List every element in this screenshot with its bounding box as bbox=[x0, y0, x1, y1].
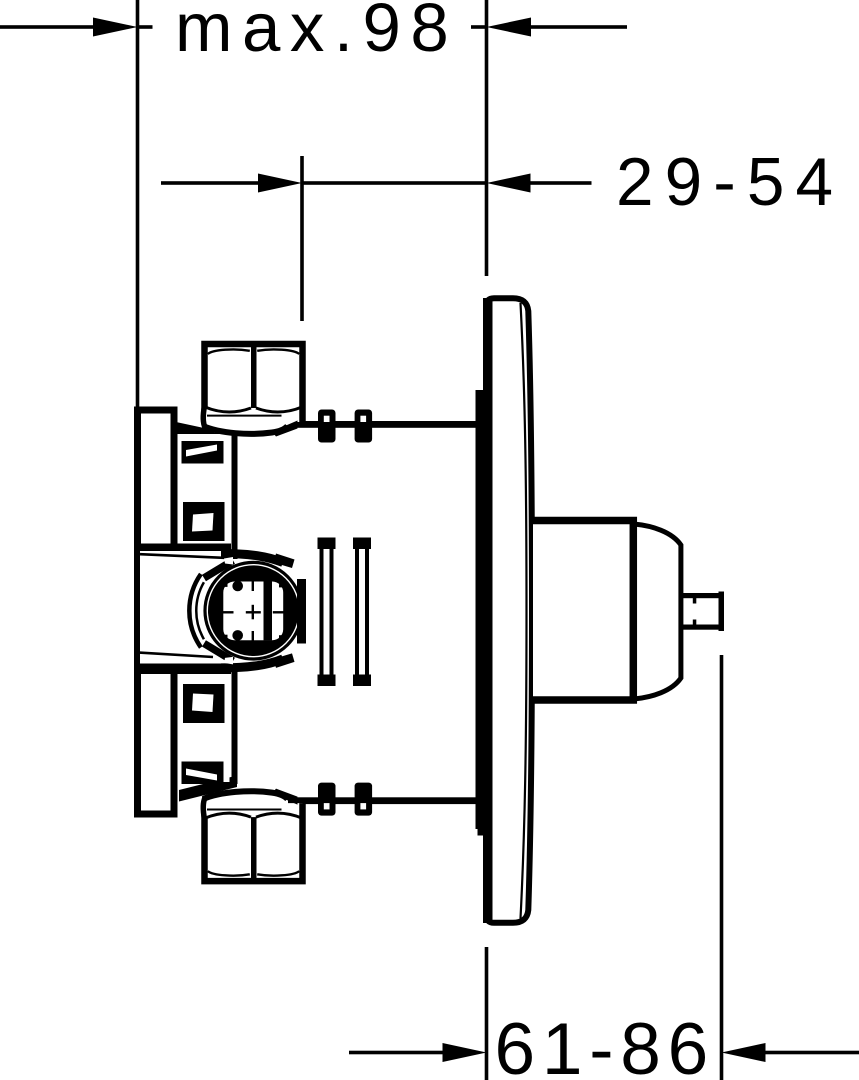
arrow 61-86 left bbox=[443, 1043, 487, 1062]
arrow 61-86 right bbox=[722, 1043, 766, 1062]
port boss outer arc bbox=[189, 574, 201, 647]
dimension line 29-54 left tail bbox=[161, 181, 258, 185]
pipe clip top 1 bbox=[318, 410, 336, 443]
dimension line max.98 left tail bbox=[0, 25, 94, 29]
boss bottom edge bbox=[136, 664, 231, 675]
svg-text:29-54: 29-54 bbox=[616, 145, 844, 220]
dimension line 29-54 span bbox=[302, 181, 487, 185]
arrow 29-54 right bbox=[487, 174, 531, 193]
port ear bottom-right bbox=[274, 653, 295, 668]
escutcheon face curve bbox=[521, 303, 527, 919]
square hole 2 bbox=[183, 502, 225, 541]
boss bottom inner line bbox=[139, 653, 213, 657]
port inner chord bar bbox=[264, 581, 273, 640]
boss top inner line bbox=[140, 554, 232, 558]
centre boss section bbox=[140, 551, 230, 664]
svg-text:max.98: max.98 bbox=[175, 0, 458, 66]
spindle stem bbox=[681, 592, 724, 632]
boss top edge bbox=[136, 544, 231, 552]
cartridge housing bbox=[533, 521, 633, 701]
escutcheon rear sleeve bbox=[476, 390, 484, 829]
port band junction top-left bbox=[204, 561, 233, 579]
escutcheon plate bbox=[486, 298, 532, 923]
square hole 4 bbox=[182, 762, 224, 785]
extension line mid (x=302) bbox=[300, 156, 304, 321]
extension line left (x=137.5) bbox=[136, 0, 140, 408]
dimension line 29-54 right tail bbox=[531, 181, 592, 185]
port ear top-right bbox=[274, 554, 295, 569]
cartridge dome bbox=[633, 524, 681, 699]
port boss inner arc bbox=[196, 582, 204, 639]
port band junction bottom-left bbox=[204, 643, 233, 661]
body junction wedge bottom bbox=[179, 776, 237, 802]
square hole 3 bbox=[183, 684, 225, 723]
arrow max.98 right bbox=[471, 25, 487, 29]
port band bottom bbox=[221, 659, 283, 668]
wall rail bbox=[138, 410, 175, 814]
centerline vertical bbox=[252, 567, 254, 656]
dimension line 61-86 left tail bbox=[349, 1051, 443, 1055]
pipe clip top 2 bbox=[355, 410, 373, 443]
body right edge lower bbox=[232, 664, 238, 784]
arrow 29-54 left bbox=[258, 174, 302, 193]
port outer circle bbox=[205, 562, 302, 659]
arrow max.98 left bbox=[93, 18, 138, 37]
pipe clip bottom 2 bbox=[355, 783, 373, 816]
valve body column bbox=[178, 434, 230, 782]
centerline horizontal bbox=[208, 611, 299, 613]
body junction wedge top bbox=[169, 421, 225, 447]
pipe clip bottom 1 bbox=[318, 783, 336, 816]
port ring annulus bbox=[208, 565, 299, 656]
escutcheon front edge thick bbox=[483, 298, 493, 923]
hex nut top bbox=[203, 344, 303, 437]
extension line bottom left (x=486.5) bbox=[485, 947, 489, 1080]
port inner square hole bbox=[223, 582, 283, 641]
extension line right top (x=486.5) bbox=[485, 0, 489, 276]
body right edge upper bbox=[232, 434, 238, 559]
pipe stub bottom bbox=[286, 797, 477, 804]
port band notch white top bbox=[224, 557, 233, 565]
dimension line max.98 right tail bbox=[531, 25, 627, 29]
threaded rod 2 bbox=[353, 538, 371, 687]
port inner bump bottom bbox=[232, 630, 243, 641]
extension line bottom right (x=721.5) bbox=[720, 655, 724, 1080]
dimension line 61-86 right tail bbox=[766, 1051, 859, 1055]
square hole 1 bbox=[182, 441, 224, 464]
hex nut bottom (mirrored copy) bbox=[203, 789, 303, 882]
port band top bbox=[221, 554, 283, 563]
port inner bump top bbox=[232, 581, 243, 592]
port band notch white bottom bbox=[224, 657, 233, 665]
port right boss bbox=[297, 579, 306, 644]
port hole corner dots bbox=[224, 584, 282, 639]
svg-text:61-86: 61-86 bbox=[495, 1009, 715, 1080]
pipe stub top bbox=[294, 421, 477, 428]
threaded rod 1 bbox=[318, 538, 336, 687]
